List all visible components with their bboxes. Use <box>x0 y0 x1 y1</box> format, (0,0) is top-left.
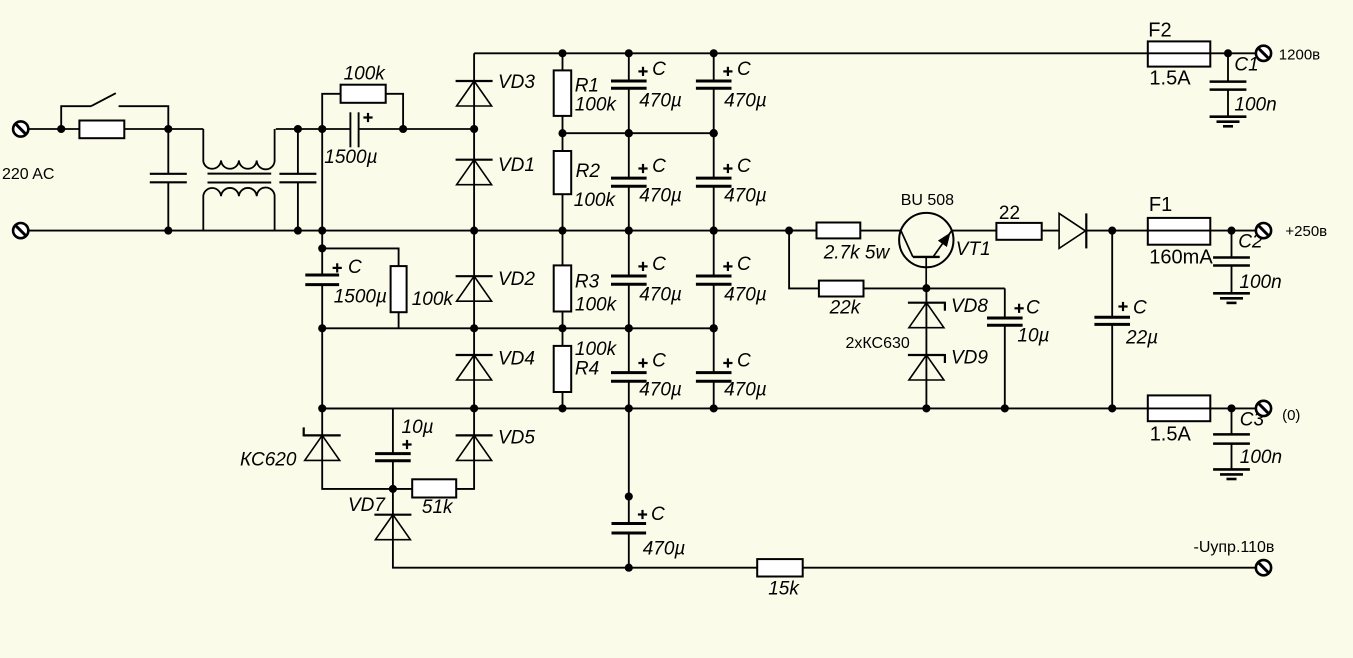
svg-text:100k: 100k <box>575 339 618 360</box>
wire VD1-y3 <box>473 185 475 231</box>
wire mains top <box>28 128 61 130</box>
terminal mains-N <box>13 223 28 238</box>
capacitor 1500u shunt <box>321 248 323 275</box>
svg-text:470µ: 470µ <box>724 380 767 401</box>
capacitor 470u row1 colB <box>713 53 715 81</box>
svg-text:VD2: VD2 <box>498 269 535 290</box>
rail y5 <box>322 407 1256 409</box>
wire VD7 to bottom rail <box>393 540 757 568</box>
node cap row1 colB bottom <box>710 129 718 137</box>
svg-text:C: C <box>652 254 666 275</box>
resistor 2.7k 5w <box>789 230 816 232</box>
rail y2b <box>563 132 714 134</box>
ground C2 <box>1213 293 1250 303</box>
resistor 22 <box>996 223 1041 240</box>
svg-text:VD3: VD3 <box>498 72 535 93</box>
capacitor 10u left <box>322 407 393 409</box>
transformer T1 primary <box>203 129 274 169</box>
node C2 top <box>1227 227 1235 235</box>
node cap row3 colB top <box>710 227 718 235</box>
polarity plus <box>363 113 372 122</box>
svg-text:100k: 100k <box>575 95 618 116</box>
node C3 top <box>1227 404 1235 412</box>
node cap row4 colA bottom <box>625 404 633 412</box>
svg-text:(0): (0) <box>1282 407 1300 424</box>
capacitor C1 <box>1227 53 1229 81</box>
capacitor filter C-in1 <box>167 129 169 174</box>
svg-text:1.5A: 1.5A <box>1150 424 1192 446</box>
wire mains bottom <box>28 230 816 232</box>
wire VD8-VD9 <box>925 328 927 355</box>
node diode-col y4 <box>470 324 478 332</box>
capacitor C2 <box>1231 231 1233 258</box>
wire left vertical <box>321 129 323 248</box>
svg-text:100n: 100n <box>1234 95 1276 116</box>
terminal 1200v <box>1256 46 1271 61</box>
node cap row1 colA bottom <box>625 129 633 137</box>
svg-text:10µ: 10µ <box>1017 326 1049 347</box>
wire y4-VD4 <box>473 328 475 355</box>
diode VD3 <box>456 81 493 106</box>
diode VD8 <box>925 288 927 303</box>
wire cap to diode column <box>359 128 475 130</box>
svg-text:VD7: VD7 <box>348 495 386 516</box>
diode output <box>1059 213 1086 248</box>
wire diode col top <box>473 53 475 81</box>
capacitor filter C-in2 <box>297 129 299 174</box>
diode VD5 <box>456 435 493 460</box>
node y5 left <box>318 404 326 412</box>
svg-text:F2: F2 <box>1148 20 1171 42</box>
node diode-col y2 <box>470 125 478 133</box>
node 470u bottom rail <box>625 564 633 572</box>
node R1 top <box>558 49 566 57</box>
capacitor 470u row1 colA <box>628 53 630 81</box>
polarity plus 10u left <box>402 440 411 449</box>
svg-text:R3: R3 <box>575 272 600 293</box>
node 470u bottom mid <box>625 492 633 500</box>
node left-vert y4 <box>318 324 326 332</box>
node filtercap1-bottom <box>164 227 172 235</box>
transformer T1 core <box>208 173 272 175</box>
resistor 100k bypass <box>322 94 340 129</box>
node y4 end <box>710 324 718 332</box>
svg-text:1200в: 1200в <box>1279 47 1320 64</box>
fuse mains <box>79 121 124 139</box>
node branch 2.7k <box>785 227 793 235</box>
wire 22 to diode <box>1042 230 1059 232</box>
wire y3-VD2 <box>473 231 475 277</box>
node y2b capB <box>710 129 718 137</box>
rail y4 <box>322 327 714 329</box>
node cap row2 colA bottom <box>625 227 633 235</box>
diode VD9 <box>908 354 945 380</box>
svg-text:VD8: VD8 <box>951 296 988 317</box>
svg-text:C: C <box>652 59 666 80</box>
wire left vertical lower <box>321 328 323 408</box>
node bypass-left <box>318 125 326 133</box>
diode VD2 <box>456 276 493 301</box>
node diode-col y3 <box>470 227 478 235</box>
diode VD7 <box>392 489 394 515</box>
polarity plus 470u bottom <box>638 510 647 519</box>
svg-text:470µ: 470µ <box>639 186 682 207</box>
resistor R2 <box>562 133 564 151</box>
svg-text:BU 508: BU 508 <box>901 192 954 209</box>
node cap row2 colB bottom <box>710 227 718 235</box>
node VD7 junction <box>389 485 397 493</box>
svg-text:470µ: 470µ <box>639 285 682 306</box>
node bypass-right <box>399 125 407 133</box>
svg-text:470µ: 470µ <box>639 380 682 401</box>
svg-text:C: C <box>652 350 666 371</box>
wire emitter to 22 <box>952 230 997 232</box>
svg-text:C: C <box>737 350 751 371</box>
transformer T1 secondary <box>203 187 274 230</box>
svg-text:1.5A: 1.5A <box>1149 68 1191 90</box>
wire bottom right <box>803 567 1256 569</box>
node R4 bottom <box>558 404 566 412</box>
node 10u y5 <box>1001 404 1009 412</box>
wire VD2-y4 <box>473 301 475 328</box>
svg-text:100k: 100k <box>412 289 455 310</box>
capacitor 1500u series <box>349 112 351 147</box>
svg-text:22k: 22k <box>829 298 862 319</box>
node base junction <box>922 284 930 292</box>
wire fuse-right <box>125 128 204 130</box>
polarity plus 1500u shunt <box>333 263 342 272</box>
ground C3 <box>1213 469 1250 479</box>
node filtercap2-bottom <box>294 227 302 235</box>
svg-text:R1: R1 <box>575 76 599 97</box>
terminal -U 110v <box>1256 560 1271 575</box>
svg-text:470µ: 470µ <box>643 539 686 560</box>
resistor 51k <box>393 488 412 490</box>
node cap row1 colA top <box>625 49 633 57</box>
node filtercap2-top <box>294 125 302 133</box>
diode VD4 <box>456 355 493 380</box>
wire fuse-left <box>61 128 79 130</box>
node cap row2 colA top <box>625 129 633 137</box>
transistor VT1 <box>899 213 953 288</box>
svg-text:R2: R2 <box>576 161 601 182</box>
node R2 bottom <box>558 227 566 235</box>
resistor R3 <box>562 231 564 266</box>
node left-vert y3 <box>318 227 326 235</box>
node cap row4 colB bottom <box>710 404 718 412</box>
switch S1 <box>61 106 91 129</box>
svg-text:100k: 100k <box>575 295 618 316</box>
wire 22k branch <box>789 231 819 289</box>
wire VD5-51k <box>456 460 474 489</box>
svg-text:15k: 15k <box>768 579 800 600</box>
capacitor 470u row3 colB <box>713 231 715 276</box>
svg-text:470µ: 470µ <box>724 186 767 207</box>
svg-text:C1: C1 <box>1234 55 1258 76</box>
capacitor 470u row3 colA <box>628 231 630 276</box>
wire diode to F1 <box>1086 230 1256 232</box>
node cap row3 colB bottom <box>710 324 718 332</box>
diode KC620 <box>321 408 323 435</box>
svg-text:VD5: VD5 <box>498 428 535 449</box>
svg-text:C: C <box>651 504 665 525</box>
node cap row3 colA top <box>625 227 633 235</box>
wire VD4-y5 <box>473 380 475 408</box>
svg-text:220 AC: 220 AC <box>2 166 54 183</box>
svg-text:100k: 100k <box>574 190 617 211</box>
node cap row4 colA top <box>625 324 633 332</box>
capacitor 470u row4 colB <box>713 328 715 372</box>
svg-text:470µ: 470µ <box>639 91 682 112</box>
wire after transformer <box>276 128 351 130</box>
svg-text:C: C <box>737 59 751 80</box>
svg-text:F1: F1 <box>1149 194 1172 216</box>
node cap row3 colA bottom <box>625 324 633 332</box>
node left-vert branch <box>318 244 326 252</box>
svg-text:C: C <box>737 254 751 275</box>
resistor R4 <box>562 328 564 346</box>
terminal 0 <box>1256 401 1271 416</box>
svg-text:VD1: VD1 <box>498 155 535 176</box>
svg-text:C: C <box>737 156 751 177</box>
svg-text:100k: 100k <box>344 64 387 85</box>
wire VD9 bottom <box>925 380 927 408</box>
terminal +250v <box>1256 223 1271 238</box>
node cap row2 colB top <box>710 129 718 137</box>
diode VD1 <box>456 160 493 185</box>
svg-text:160mA: 160mA <box>1149 247 1213 269</box>
svg-text:22: 22 <box>999 203 1020 224</box>
capacitor 470u row2 colA <box>628 133 630 178</box>
polarity plus 10u right <box>1015 304 1024 313</box>
resistor 15k <box>757 559 803 576</box>
svg-text:100n: 100n <box>1239 272 1281 293</box>
node cap row4 colB top <box>710 324 718 332</box>
ground C1 <box>1210 117 1247 127</box>
node y2b capA <box>625 129 633 137</box>
resistor 100k shunt <box>322 248 398 266</box>
polarity plus 22u <box>1118 302 1127 311</box>
svg-text:VD9: VD9 <box>951 348 988 369</box>
svg-text:-Uупр.110в: -Uупр.110в <box>1194 539 1275 556</box>
wire y5-VD5 <box>473 408 475 435</box>
resistor R1 <box>562 53 564 70</box>
fuse F1 <box>1148 218 1211 245</box>
svg-text:C: C <box>348 257 362 278</box>
capacitor C3 <box>1231 408 1233 434</box>
svg-text:2.7k 5w: 2.7k 5w <box>823 243 891 264</box>
fuse F2 <box>1148 41 1211 66</box>
node diode-col y5 <box>470 404 478 412</box>
node R3 bottom <box>558 324 566 332</box>
svg-text:1500µ: 1500µ <box>324 147 377 168</box>
svg-text:VT1: VT1 <box>956 239 991 260</box>
svg-text:22µ: 22µ <box>1125 328 1158 349</box>
svg-text:2xКС630: 2xКС630 <box>846 335 910 352</box>
node C1 top <box>1224 49 1232 57</box>
node switch-left <box>57 125 65 133</box>
svg-text:470µ: 470µ <box>724 91 767 112</box>
svg-text:C: C <box>652 156 666 177</box>
capacitor 22u <box>1111 231 1113 318</box>
node 22u top <box>1108 227 1116 235</box>
svg-text:1500µ: 1500µ <box>334 287 387 308</box>
node VD9 y5 <box>922 404 930 412</box>
top rail <box>474 52 1256 54</box>
fuse F3 1.5A <box>1148 395 1211 421</box>
capacitor 470u row2 colB <box>713 133 715 178</box>
svg-text:+250в: +250в <box>1285 223 1327 240</box>
terminal mains-L <box>13 121 28 136</box>
capacitor 10u right <box>1004 288 1006 318</box>
svg-text:51k: 51k <box>422 497 454 518</box>
svg-text:R4: R4 <box>575 359 599 380</box>
svg-text:VD4: VD4 <box>498 349 535 370</box>
svg-text:470µ: 470µ <box>724 285 767 306</box>
svg-text:КС620: КС620 <box>240 450 297 471</box>
capacitor 470u bottom <box>628 408 630 523</box>
wire KC620 bottom <box>322 460 393 489</box>
wire VD3-VD1 <box>473 106 475 160</box>
svg-text:10µ: 10µ <box>402 417 434 438</box>
node filtercap1-top <box>164 125 172 133</box>
svg-text:C: C <box>1026 297 1040 318</box>
node cap row1 colB top <box>710 49 718 57</box>
capacitor 470u row4 colA <box>628 328 630 372</box>
svg-text:C: C <box>1133 297 1147 318</box>
resistor 22k <box>819 281 864 297</box>
svg-text:100n: 100n <box>1240 447 1282 468</box>
node y2b R <box>558 129 566 137</box>
node 22u y5 <box>1108 404 1116 412</box>
